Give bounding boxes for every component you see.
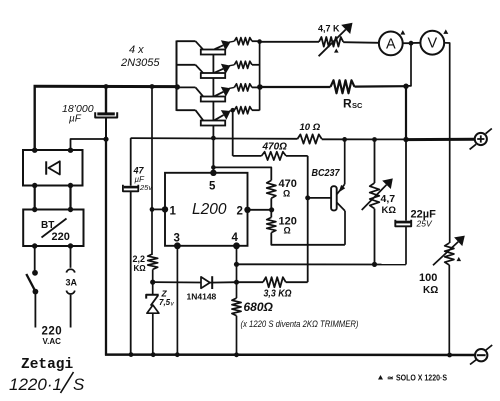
marker triangle 100K	[457, 257, 462, 261]
svg-text:680Ω: 680Ω	[244, 300, 274, 314]
label 47uF 25v	[133, 166, 154, 193]
node transformer bottom-right	[68, 243, 73, 248]
wire pot to ammeter	[343, 41, 379, 44]
regulator U1 L200 box	[165, 173, 248, 246]
node bridge top-right	[68, 148, 73, 153]
node gnd 47uF	[129, 352, 134, 357]
label BC237	[312, 167, 341, 179]
svg-text:Zetagi: Zetagi	[21, 357, 74, 373]
wire 680 bottom	[236, 316, 238, 355]
label 3.3K	[264, 288, 292, 300]
label 220 primary	[52, 231, 70, 243]
wire pin3 rail	[176, 246, 178, 355]
resistor 3.3K	[263, 277, 286, 287]
label C1 18000uF	[62, 103, 94, 125]
wire 470h left	[233, 155, 262, 157]
wire 3.3K right	[286, 281, 308, 283]
svg-text:A: A	[386, 36, 396, 52]
svg-text:L200: L200	[192, 201, 227, 218]
label BT	[41, 220, 54, 231]
wire emitter Q3	[215, 87, 235, 97]
node bridge bottom-left	[32, 183, 37, 188]
svg-text:1: 1	[170, 206, 177, 218]
wire 4.7K right top	[374, 140, 376, 184]
wire junction to V	[411, 42, 421, 44]
pin 3	[174, 233, 181, 250]
node gnd 680	[234, 352, 239, 357]
node 4.7K pot tap	[372, 137, 377, 142]
wire 18000uF bottom lead	[105, 119, 107, 140]
node gnd 100K	[447, 353, 452, 358]
capacitor 22uF	[395, 220, 411, 227]
svg-text:7,5: 7,5	[159, 298, 171, 307]
svg-text:25V: 25V	[416, 219, 433, 229]
wire +rail vertical	[405, 86, 407, 139]
transformer BT220 box	[23, 210, 83, 247]
node bridge bottom-right	[68, 183, 73, 188]
wire divider bottom to emitter line	[271, 233, 345, 245]
svg-text:S: S	[73, 375, 85, 394]
wire pin5 branch	[213, 167, 271, 180]
marker triangle A	[400, 30, 405, 35]
wire 2.2K to zener	[152, 269, 154, 282]
node A-V junction	[409, 41, 414, 46]
pin 1	[162, 206, 177, 218]
node collector rail bus	[175, 84, 180, 89]
label L200	[192, 201, 227, 218]
capacitor C1 18000uF	[95, 112, 117, 117]
resistor emitter R4	[234, 107, 259, 114]
svg-text:5: 5	[209, 181, 216, 193]
wire output line left	[131, 137, 298, 140]
wire comp line	[237, 263, 406, 265]
label 4.7K right	[381, 193, 397, 216]
transistor Q3 2N3055 base bar	[201, 97, 225, 102]
label 220 V.AC	[42, 326, 63, 347]
svg-text:µF: µF	[69, 114, 82, 125]
wire 3.3K left	[237, 281, 264, 283]
svg-text:2: 2	[237, 206, 243, 218]
node zener-diode junction	[150, 280, 155, 285]
svg-text:SC: SC	[352, 101, 363, 110]
wire base chain	[212, 55, 214, 173]
node pin5 branch	[211, 165, 216, 170]
fuse F1 lead	[70, 246, 72, 268]
capacitor 47uF	[123, 185, 138, 192]
terminal - output	[470, 345, 492, 365]
node emitter rail Rsc	[257, 84, 263, 90]
bridge rectifier	[23, 150, 83, 186]
svg-text:(x 1220 S diventa 2KΩ TRIMMER: (x 1220 S diventa 2KΩ TRIMMER)	[241, 319, 359, 329]
wire AV junction down	[406, 43, 411, 86]
wire 22uF top	[405, 140, 407, 221]
wire 47uF-2.2K rail upper	[151, 87, 153, 254]
svg-text:470Ω: 470Ω	[262, 142, 288, 153]
svg-text:KΩ: KΩ	[382, 205, 397, 216]
label Rsc	[343, 97, 363, 111]
marker triangle V	[443, 29, 448, 33]
wire collector stub Q2	[177, 65, 205, 74]
node transformer top-left	[32, 207, 37, 212]
switch S1	[26, 270, 38, 328]
wire to bridge + output	[71, 139, 107, 151]
svg-text:BC237: BC237	[312, 167, 341, 179]
wire BC237 emitter	[344, 211, 346, 245]
pin 2	[237, 206, 251, 218]
svg-text:Z: Z	[161, 289, 168, 299]
wire pin4 rail upper	[236, 246, 238, 298]
label zener Z 7.5v	[159, 289, 175, 308]
label 10ohm	[300, 122, 321, 133]
wire ground rail	[105, 353, 475, 356]
svg-text:3A: 3A	[66, 277, 78, 287]
svg-text:KΩ: KΩ	[423, 285, 438, 296]
label 680	[244, 300, 274, 314]
node pin4-diode junction	[234, 280, 239, 285]
node +rail junction	[403, 137, 408, 142]
wire Rsc right	[355, 85, 407, 88]
label 4x 2N3055	[120, 44, 160, 69]
node pin1 tap	[150, 207, 155, 212]
wire collector stub Q4	[177, 110, 205, 122]
svg-text:47: 47	[133, 166, 145, 176]
node 18000uF bottom	[103, 137, 108, 142]
wire 100K bottom	[448, 265, 450, 355]
wire emitter Q1	[215, 40, 235, 50]
node output-basechain junction	[211, 136, 216, 141]
svg-text:10 Ω: 10 Ω	[300, 122, 321, 133]
wire main unregulated bus	[34, 85, 178, 151]
svg-text:4,7 K: 4,7 K	[318, 24, 340, 34]
wire negative rail left vertical	[105, 139, 107, 356]
fuse F1 3A	[66, 269, 74, 327]
label 470 horizontal	[262, 142, 288, 153]
wire 470 to node	[270, 198, 272, 210]
node bridge top-left	[32, 148, 37, 153]
wire diode cathode	[210, 281, 237, 283]
label 2.2K	[133, 254, 147, 273]
resistor emitter R1	[234, 38, 259, 45]
transistor Q5 BC237	[331, 184, 345, 211]
svg-text:100: 100	[419, 272, 437, 284]
node BC237 base tap	[305, 195, 310, 200]
svg-text:4: 4	[232, 232, 239, 244]
svg-text:Ω: Ω	[284, 226, 291, 236]
label transformer slash	[42, 219, 67, 238]
wire base rail	[307, 156, 309, 282]
node 18000uF top	[104, 84, 109, 89]
svg-text:3,3 KΩ: 3,3 KΩ	[264, 288, 292, 300]
label 470 upper	[279, 178, 297, 199]
wire collector rail	[176, 41, 178, 111]
node Rsc right	[403, 84, 408, 89]
svg-text:≃: ≃	[387, 374, 394, 383]
svg-text:2,2: 2,2	[133, 254, 146, 264]
wire pin2 to divider	[248, 209, 272, 211]
node transformer bottom-left	[32, 243, 37, 248]
node emitter rail top	[257, 39, 262, 44]
label Zetagi	[21, 357, 74, 373]
node comp-pot tap	[372, 262, 377, 267]
potentiometer 4.7K right	[362, 178, 393, 210]
node BC237 collector tap	[342, 137, 347, 142]
resistor 470 horizontal	[262, 152, 287, 160]
wire 18000uF top lead	[105, 87, 107, 113]
wire +rail thick	[406, 138, 475, 141]
svg-text:4,7: 4,7	[381, 193, 396, 205]
svg-text:V.AC: V.AC	[43, 337, 62, 346]
node Q4 emitter tap	[230, 108, 235, 113]
node pin4-comp junction	[234, 262, 239, 267]
resistor Rsc	[331, 80, 355, 93]
svg-text:KΩ: KΩ	[134, 264, 147, 273]
wire bridge to transformer left	[34, 186, 36, 210]
label 100K	[419, 272, 438, 296]
wire 47uF bottom	[130, 192, 132, 355]
marker triangle 4.7K	[334, 49, 339, 53]
bridge diode symbol	[46, 161, 60, 174]
svg-text:V: V	[427, 36, 437, 52]
label trimmer note	[241, 319, 359, 329]
svg-text:2N3055: 2N3055	[120, 57, 160, 69]
node gnd zener	[151, 352, 156, 357]
zener diode Z 7.5v	[146, 282, 159, 355]
wire pin1	[152, 208, 165, 210]
pin 5	[209, 170, 217, 193]
resistor 10ohm	[297, 134, 321, 143]
meter V	[420, 31, 444, 55]
pin 4	[232, 232, 240, 249]
label 1N4148	[187, 292, 217, 302]
label 120 lower	[279, 216, 297, 236]
meter A	[379, 32, 403, 56]
label 3A	[66, 277, 78, 287]
transistor Q2 2N3055 base bar	[201, 73, 225, 78]
node divider mid	[269, 207, 274, 212]
wire V to 100K rail	[444, 43, 450, 243]
node gnd pin3	[175, 352, 180, 357]
wire output line right	[322, 138, 406, 140]
wire 470h riser	[232, 110, 234, 156]
wire collector stub Q3	[177, 87, 205, 97]
wire A to junction	[403, 42, 411, 44]
wire 4.7K right bottom	[374, 209, 376, 265]
resistor 2.2K	[148, 254, 158, 270]
svg-text:R: R	[343, 97, 352, 111]
node 47uF-rail top	[150, 84, 155, 89]
wire Rsc left	[260, 86, 331, 88]
svg-text:SOLO X 1220·S: SOLO X 1220·S	[396, 373, 447, 383]
wire 470h right	[286, 155, 308, 157]
svg-text:1N4148: 1N4148	[187, 292, 217, 302]
diode D1 1N4148	[201, 276, 212, 289]
wire bridge to transformer right	[69, 186, 71, 210]
svg-text:1220·1: 1220·1	[9, 375, 62, 394]
wire to 4.7K pot	[260, 41, 319, 43]
potentiometer 100K	[433, 236, 465, 266]
wire emitter Q4	[215, 110, 235, 120]
wire BC237 collector	[344, 140, 346, 185]
resistor 680	[232, 298, 241, 316]
label solo 1220-S note	[378, 373, 447, 383]
potentiometer 4.7K	[319, 23, 353, 56]
terminal + output	[470, 129, 492, 150]
wire BC237 base	[308, 197, 332, 199]
wire 47uF top	[130, 138, 132, 186]
svg-text:3: 3	[174, 233, 180, 245]
resistor emitter R2	[234, 61, 259, 68]
svg-text:220: 220	[52, 231, 70, 243]
node transformer top-right	[68, 207, 73, 212]
wire diode anode	[153, 281, 201, 283]
resistor 120 lower	[267, 210, 276, 233]
resistor emitter R3	[234, 84, 259, 91]
wire switch lead	[34, 246, 36, 270]
wire collector stub Q1	[177, 41, 205, 51]
wire emitter rail	[259, 41, 261, 110]
svg-text:Ω: Ω	[283, 189, 290, 199]
wire 22uF bottom	[405, 227, 407, 265]
label 4.7K	[318, 24, 340, 34]
transistor Q4 2N3055 base bar	[201, 121, 225, 126]
svg-text:220: 220	[42, 326, 63, 338]
wire emitter Q2	[215, 64, 235, 74]
label 1220-1/S	[9, 372, 85, 394]
transistor Q1 2N3055 base bar	[201, 50, 225, 55]
svg-text:4 x: 4 x	[129, 44, 144, 56]
label 22uF 25V	[411, 209, 437, 229]
resistor 470 upper	[267, 180, 276, 198]
